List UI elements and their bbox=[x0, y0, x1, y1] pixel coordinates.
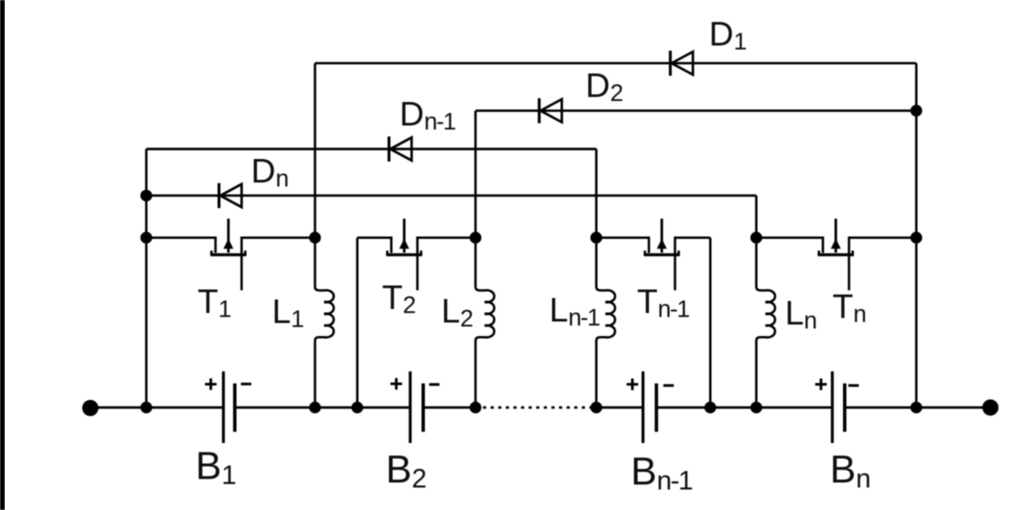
wire: D2 loop (node above L2 to right rail) bbox=[476, 109, 917, 111]
node: cell2 left rail on bus bbox=[351, 402, 363, 414]
wire cell n left rail (vertical rail) and inductor Ln bbox=[756, 196, 775, 408]
transistor T1 bbox=[146, 219, 315, 291]
wire: bottom bus segment Bn to right terminal bbox=[845, 406, 991, 408]
diode D2 (cathode bar + left-pointing triangle) bbox=[539, 98, 562, 123]
wire: cell1 left rail bbox=[145, 149, 147, 408]
battery B1: short negative plate bbox=[233, 383, 236, 431]
polarity mark + bbox=[627, 379, 639, 391]
node: Tn-1 drain / Ln-1 rail bbox=[590, 232, 602, 244]
node: T1 source / L1 top bbox=[309, 232, 321, 244]
wire: bottom bus segment to battery Bn-1 bbox=[593, 406, 643, 408]
node: Dn tap on cell1 left rail bbox=[140, 190, 152, 202]
wire: Dn-1 loop (cell1 left rail to cell n-1 left rail) bbox=[146, 148, 596, 150]
node: cell1 left rail on bus bbox=[140, 402, 152, 414]
polarity mark + bbox=[205, 378, 217, 390]
diode Dn (cathode bar + left-pointing triangle) bbox=[219, 183, 242, 208]
node: Tn source on right rail bbox=[910, 232, 922, 244]
battery Bn: long positive plate bbox=[831, 371, 834, 443]
node: Tn drain / Ln rail bbox=[750, 232, 762, 244]
battery Bn-1: short negative plate bbox=[655, 383, 658, 431]
wire: bottom bus segment Bn-1 to Bn bbox=[656, 406, 832, 408]
wire: Dn loop (cell1 left rail to cell n left rail) bbox=[146, 194, 756, 196]
node: L2 bottom on bus bbox=[470, 402, 482, 414]
transistor Tn-1 bbox=[596, 219, 710, 291]
node: T1 drain on cell1 left rail bbox=[140, 232, 152, 244]
wire cell2 right rail (vertical rail) and inductor L2 bbox=[476, 111, 495, 408]
node: T2 source / L2 top bbox=[470, 232, 482, 244]
node: Tn-1 source drop on bus bbox=[704, 402, 716, 414]
diode D1 (cathode bar + left-pointing triangle) bbox=[670, 51, 693, 76]
wire: D1 top loop (node above L1 to right rail) bbox=[315, 62, 916, 64]
node: Ln bottom on bus bbox=[750, 402, 762, 414]
wire cell1 right rail (vertical rail) and inductor L1 bbox=[315, 63, 334, 407]
transistor T2 bbox=[357, 219, 475, 291]
wire: right outer rail bbox=[915, 63, 917, 407]
wire: bottom bus segment B1 to B2 bbox=[235, 406, 410, 408]
node: Ln-1 bottom on bus bbox=[590, 402, 602, 414]
polarity mark - bbox=[663, 384, 673, 387]
battery B2: short negative plate bbox=[422, 383, 425, 431]
wire: cell2 left rail bbox=[356, 238, 358, 408]
transistor Tn bbox=[756, 219, 916, 291]
polarity mark - bbox=[429, 383, 439, 386]
polarity mark + bbox=[391, 378, 403, 390]
node: right rail on bus bbox=[910, 402, 922, 414]
polarity mark - bbox=[241, 383, 251, 386]
node: right pack terminal bbox=[982, 399, 998, 415]
diode Dn-1 (cathode bar + left-pointing triangle) bbox=[389, 137, 412, 162]
wire: bottom bus segment from left terminal to battery B1 bbox=[90, 406, 223, 408]
battery B2: long positive plate bbox=[409, 371, 412, 443]
polarity mark + bbox=[815, 379, 827, 391]
node: L1 bottom on bus bbox=[309, 402, 321, 414]
battery B1: long positive plate bbox=[222, 371, 225, 443]
wire: cell n-1 right drop wire bbox=[709, 238, 711, 408]
polarity mark - bbox=[848, 384, 858, 387]
wire cell n-1 left rail (vertical rail) and inductor Ln-1 bbox=[596, 149, 615, 408]
node: D2 junction on right rail bbox=[910, 105, 922, 117]
battery Bn-1: long positive plate bbox=[642, 371, 645, 443]
node: left pack terminal bbox=[82, 400, 98, 416]
wire: bottom bus dotted continuation segment bbox=[483, 406, 591, 408]
battery Bn: short negative plate bbox=[843, 383, 846, 431]
wire: bottom bus segment after B2 bbox=[423, 406, 478, 408]
